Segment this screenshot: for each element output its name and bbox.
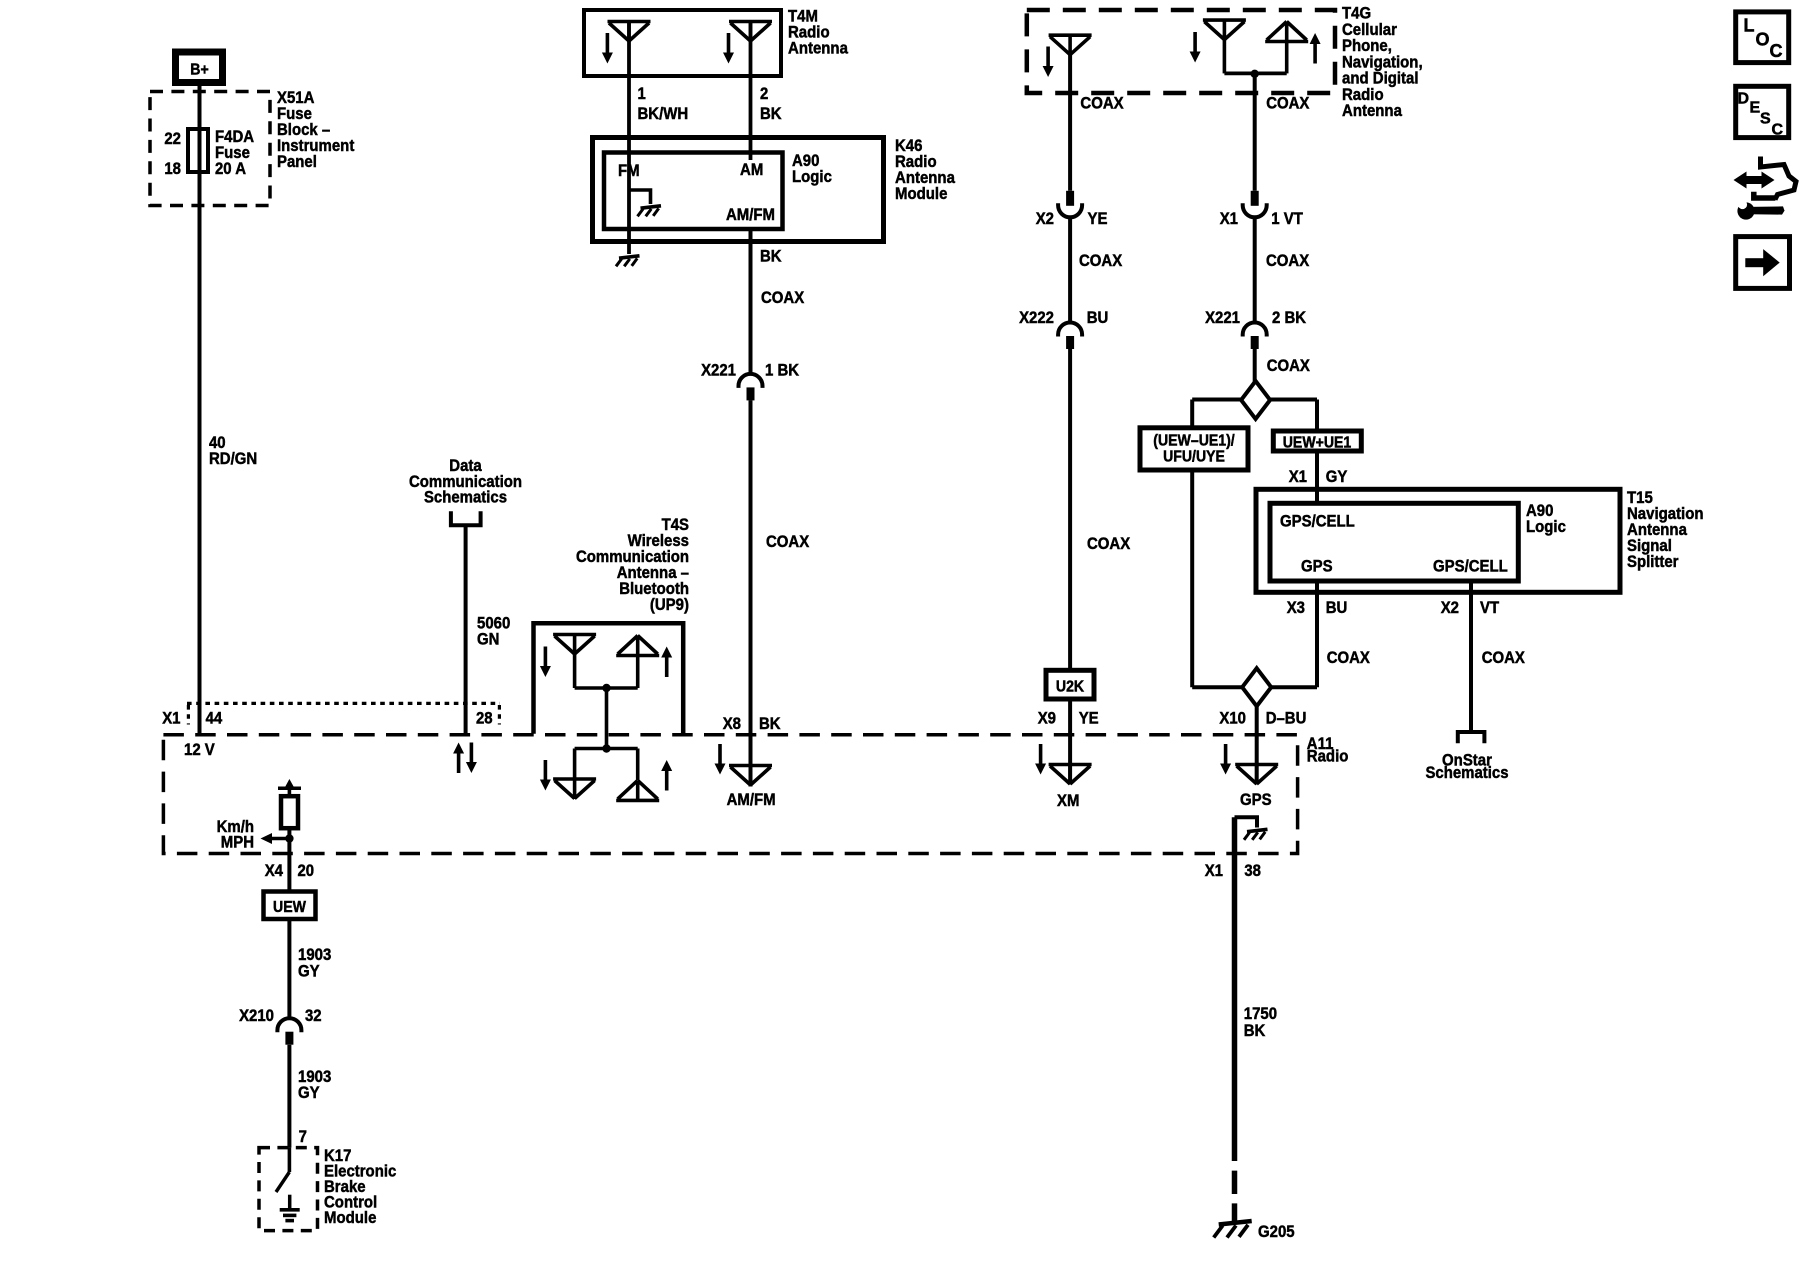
pin 2 label [760, 84, 768, 103]
svg-text:MPH: MPH [221, 833, 254, 852]
radio internal transmit antenna bluetooth [616, 749, 659, 801]
antenna element 2 in T4M [729, 22, 772, 42]
wire U2K to radio X9 [1068, 699, 1072, 784]
wire AM/FM output BK [749, 229, 753, 375]
svg-text:BK: BK [1244, 1021, 1266, 1040]
svg-text:O: O [1756, 30, 1770, 50]
wire label COAX above diamond [1267, 356, 1311, 375]
pin 1 label [638, 84, 646, 103]
svg-text:2 BK: 2 BK [1272, 308, 1307, 327]
svg-text:AM: AM [740, 160, 763, 179]
pin X1 GY label at splitter [1289, 467, 1348, 486]
svg-text:1 VT: 1 VT [1271, 209, 1303, 228]
node label AM/FM [727, 790, 776, 809]
switch blade inside K17 [276, 1148, 289, 1192]
wire label COAX below X2 [1079, 251, 1123, 270]
svg-text:X221: X221 [701, 361, 736, 380]
svg-text:XM: XM [1057, 791, 1079, 810]
wire COAX X1 to X221 [1253, 217, 1257, 323]
component label K46 Radio Antenna Module [895, 136, 955, 203]
svg-text:20 A: 20 A [215, 159, 246, 178]
wire label COAX long left [1087, 534, 1131, 553]
offpage reference OnStar Schematics [1425, 751, 1508, 783]
connector label X1 [162, 709, 180, 728]
svg-text:X2: X2 [1441, 598, 1459, 617]
antenna symbol GPS inside radio [1235, 765, 1278, 785]
svg-text:G205: G205 [1258, 1222, 1295, 1241]
svg-text:COAX: COAX [1079, 251, 1123, 270]
inline connector X2 YE [1036, 191, 1108, 228]
svg-text:Radio: Radio [1307, 747, 1349, 766]
wire label 5060 GN [477, 614, 510, 649]
pin AM label [740, 160, 763, 179]
offpage bracket to OnStar [1458, 732, 1485, 743]
svg-text:VT: VT [1480, 598, 1500, 617]
inline connector X1 1 VT [1220, 191, 1304, 228]
antenna T4M box [584, 10, 781, 76]
pin GPS output label [1301, 557, 1333, 576]
resistor speed signal element [281, 796, 298, 828]
svg-text:X2: X2 [1036, 209, 1054, 228]
navigation antenna element middle [1203, 20, 1246, 73]
chassis ground inside A90 [638, 206, 662, 217]
module label K17 Electronic Brake Control Module [324, 1146, 396, 1227]
module K17 dashed outline [259, 1148, 318, 1231]
wire label COAX below X2 VT [1482, 648, 1526, 667]
pin X10 D-BU label [1219, 709, 1306, 728]
receive arrow at antenna 2 [723, 33, 734, 64]
wire to UFU option branch [1190, 400, 1194, 428]
svg-text:RD/GN: RD/GN [209, 449, 257, 468]
component label T4M Radio Antenna [788, 7, 848, 58]
wire resistor to UEW box [287, 828, 291, 892]
pin 18 label [164, 159, 181, 178]
svg-text:44: 44 [206, 709, 223, 728]
svg-text:(UEW–UE1)/: (UEW–UE1)/ [1153, 433, 1235, 450]
pin X8 BK label [723, 714, 782, 733]
svg-text:YE: YE [1079, 709, 1099, 728]
svg-text:Antenna: Antenna [788, 39, 848, 58]
chassis ground G205 [1214, 1221, 1252, 1238]
bluetooth transmit arrow in T4S [661, 647, 672, 678]
pin 7 label [299, 1127, 307, 1146]
speedometer signal arrowhead up [278, 779, 301, 789]
wire GY into splitter X1 [1315, 451, 1319, 503]
offpage reference Data Communication Schematics [409, 456, 522, 507]
wire label BK/WH [638, 104, 689, 123]
svg-text:X222: X222 [1019, 308, 1054, 327]
svg-text:COAX: COAX [1087, 534, 1131, 553]
arrow to Km/h MPH output [261, 833, 290, 844]
junction diamond lower [1192, 668, 1317, 706]
fuse F4DA 20 A [188, 129, 208, 172]
option box U2K [1046, 670, 1094, 699]
wire 2 BK antenna to module [749, 21, 753, 160]
ground label G205 [1258, 1222, 1295, 1241]
node UEW option box [264, 892, 316, 920]
svg-text:S: S [1760, 111, 1771, 128]
svg-text:C: C [1772, 122, 1784, 139]
component label X51A Fuse Block Instrument Panel [277, 88, 355, 171]
svg-text:X4: X4 [265, 861, 284, 880]
receive arrow at radio AM/FM input [715, 744, 726, 775]
bluetooth receive antenna in T4S [553, 635, 596, 689]
wire label COAX lower AM/FM [766, 532, 810, 551]
svg-text:D–BU: D–BU [1266, 709, 1307, 728]
svg-text:COAX: COAX [1267, 356, 1311, 375]
node label GPS [1240, 790, 1272, 809]
svg-text:COAX: COAX [761, 288, 805, 307]
wire 1 BK/WH antenna to module [627, 21, 631, 254]
svg-text:X221: X221 [1205, 308, 1240, 327]
wire label 1903 GY [298, 945, 331, 981]
svg-text:COAX: COAX [766, 532, 810, 551]
junction bar in T4S [575, 684, 638, 692]
wire 1903 GY lower segment [287, 1045, 291, 1148]
ground stub inside radio at GPS [1235, 817, 1258, 827]
wire T4S feed into radio [605, 688, 609, 749]
svg-text:Antenna: Antenna [1342, 101, 1402, 120]
option box UEW+UE1 [1273, 431, 1361, 452]
pin 28 label [476, 709, 493, 728]
junction diamond upper [1192, 381, 1317, 419]
module K46 box [593, 138, 884, 242]
node junction at speed signal [285, 834, 293, 842]
wire 1903 GY upper segment [287, 919, 291, 1019]
wire label COAX left T4G [1080, 94, 1124, 113]
svg-text:Panel: Panel [277, 152, 317, 171]
wire label 1903 GY second [298, 1067, 331, 1102]
svg-text:C: C [1770, 41, 1783, 61]
serial data arrows at pin 28 [453, 743, 477, 774]
wire label COAX below X3 [1327, 648, 1371, 667]
svg-text:Logic: Logic [1526, 517, 1566, 536]
svg-text:X3: X3 [1287, 598, 1305, 617]
splitter T15 box [1256, 489, 1620, 592]
wire dashed tail to G205 [1232, 1171, 1238, 1221]
pin X2 VT label [1441, 598, 1500, 617]
ground stub inside A90 [629, 190, 651, 204]
svg-text:20: 20 [298, 861, 315, 880]
antenna symbol AM/FM inside radio [729, 766, 772, 786]
signal label Km/h MPH [217, 817, 254, 852]
svg-text:GPS/CELL: GPS/CELL [1433, 557, 1508, 576]
svg-text:COAX: COAX [1482, 648, 1526, 667]
svg-text:COAX: COAX [1327, 648, 1371, 667]
component label T4G Cellular Phone Navigation and Digital Radio Antenna [1342, 4, 1423, 121]
svg-text:Logic: Logic [792, 167, 832, 186]
svg-text:GPS/CELL: GPS/CELL [1280, 512, 1355, 531]
logic label A90 Logic in splitter [1526, 501, 1566, 536]
fuse F4DA value label [215, 127, 254, 178]
svg-text:UEW+UE1: UEW+UE1 [1283, 435, 1352, 452]
svg-text:GY: GY [298, 962, 320, 981]
pin 22 label [164, 129, 181, 148]
wire label COAX on AM/FM line [761, 288, 805, 307]
wire label COAX below X1 [1266, 251, 1310, 270]
receive arrow at antenna 1 [602, 33, 613, 64]
svg-text:X1: X1 [162, 709, 180, 728]
wire D-BU to radio X10 [1255, 706, 1259, 784]
svg-text:38: 38 [1244, 861, 1261, 880]
svg-text:Schematics: Schematics [424, 488, 507, 507]
bluetooth receive arrow in T4S [540, 647, 551, 678]
svg-text:BK: BK [759, 714, 781, 733]
wire COAX X222 to U2K [1068, 349, 1072, 670]
component label A11 Radio [1307, 734, 1349, 766]
svg-text:Module: Module [895, 184, 947, 203]
wire label BK [760, 104, 782, 123]
earth ground inside K17 [280, 1195, 300, 1221]
wire 1750 BK radio ground lead [1232, 817, 1238, 1161]
svg-text:22: 22 [164, 129, 181, 148]
svg-text:E: E [1750, 100, 1761, 117]
icon box DESC [1736, 86, 1789, 138]
svg-text:COAX: COAX [1080, 94, 1124, 113]
svg-text:X1: X1 [1289, 467, 1307, 486]
icon box LOC [1736, 12, 1789, 63]
wire label 1750 BK [1244, 1004, 1277, 1040]
pin 44 label [206, 709, 223, 728]
wire to UEW+UE1 option branch [1315, 400, 1319, 432]
radio internal receive arrow bluetooth [540, 760, 551, 791]
antenna element 1 in T4M [608, 22, 651, 42]
logic block A90 in T15 [1270, 503, 1518, 581]
chassis ground below K46 [616, 256, 640, 266]
pin AM/FM label [726, 205, 775, 224]
wire UFU branch down to lower junction [1190, 470, 1194, 687]
junction bar in T4G [1224, 70, 1286, 78]
pin GPS/CELL input label [1280, 512, 1355, 531]
inline connector X210 cavity 32 [239, 1006, 322, 1045]
chassis ground inside radio [1244, 829, 1268, 840]
svg-text:X9: X9 [1038, 709, 1056, 728]
svg-text:X1: X1 [1220, 209, 1238, 228]
wire COAX X221 to splitter junction [1253, 349, 1257, 382]
wire COAX X221 to radio X8 [749, 400, 753, 786]
wire label BK below K46 [760, 247, 782, 266]
svg-text:28: 28 [476, 709, 493, 728]
svg-text:BK: BK [760, 247, 782, 266]
svg-text:X10: X10 [1219, 709, 1246, 728]
svg-text:B+: B+ [190, 62, 208, 79]
antenna T4G dashed box [1027, 10, 1335, 93]
svg-text:18: 18 [164, 159, 181, 178]
pin X3 BU label [1287, 598, 1348, 617]
receive arrow at radio XM input [1035, 744, 1046, 775]
pin X9 YE label [1038, 709, 1099, 728]
svg-text:UFU/UYE: UFU/UYE [1163, 449, 1225, 466]
svg-text:AM/FM: AM/FM [726, 205, 775, 224]
svg-text:GY: GY [1326, 467, 1348, 486]
svg-text:D: D [1738, 91, 1750, 108]
wire T4G combined feed to X1 [1253, 73, 1257, 190]
svg-text:YE: YE [1088, 209, 1108, 228]
svg-text:BK/WH: BK/WH [638, 104, 689, 123]
svg-text:GPS: GPS [1301, 557, 1333, 576]
fuse block X51A dashed outline [150, 92, 270, 206]
wire label 40 RD/GN [209, 433, 257, 468]
logic block A90 in K46 [604, 153, 783, 230]
radio internal transmit arrow bluetooth [661, 760, 672, 791]
svg-text:32: 32 [305, 1006, 322, 1025]
receive arrow cellular left [1043, 47, 1054, 78]
radio A11 dashed box [163, 735, 1297, 854]
offpage bracket for data link [451, 511, 481, 525]
svg-text:(UP9): (UP9) [650, 595, 689, 614]
junction bar inside radio bluetooth [575, 744, 638, 752]
connector X1 dotted boundary line [187, 703, 500, 724]
pin FM label [618, 161, 640, 180]
wire COAX X2 to X222 [1068, 217, 1072, 323]
logic label A90 Logic [792, 151, 832, 186]
node 12 V label [184, 740, 215, 759]
svg-text:BU: BU [1087, 308, 1109, 327]
icon data link connector with wrench [1734, 157, 1797, 220]
svg-text:GY: GY [298, 1083, 320, 1102]
svg-text:AM/FM: AM/FM [727, 790, 776, 809]
wire GPS/CELL output X2 VT [1469, 581, 1473, 732]
svg-text:1 BK: 1 BK [765, 361, 800, 380]
wire 40 RD/GN from B+ feed to radio pin 44 [198, 84, 202, 733]
svg-text:COAX: COAX [1266, 251, 1310, 270]
svg-text:Module: Module [324, 1208, 376, 1227]
pin X1 38 label [1205, 861, 1261, 880]
svg-text:BK: BK [760, 104, 782, 123]
pin GPS/CELL output label [1433, 557, 1508, 576]
svg-text:X8: X8 [723, 714, 741, 733]
wire cellular antenna to X2 [1068, 54, 1072, 191]
wire label COAX right T4G [1266, 94, 1310, 113]
inline connector X222 BU [1019, 308, 1108, 349]
svg-text:Splitter: Splitter [1627, 552, 1679, 571]
icon box forward arrow [1736, 237, 1790, 289]
svg-text:UEW: UEW [273, 899, 307, 916]
svg-text:X1: X1 [1205, 861, 1223, 880]
transmit arrow digital radio [1310, 33, 1321, 64]
svg-text:COAX: COAX [1266, 94, 1310, 113]
svg-text:1: 1 [638, 84, 646, 103]
bluetooth transmit antenna in T4S [616, 636, 659, 689]
power symbol B+ [176, 52, 223, 83]
component label T15 Navigation Antenna Signal Splitter [1627, 488, 1704, 571]
svg-text:2: 2 [760, 84, 768, 103]
node label XM [1057, 791, 1079, 810]
antenna T4S box open bottom [534, 623, 684, 734]
option box UEW-UE1 UFU UYE [1140, 428, 1248, 470]
svg-text:BU: BU [1326, 598, 1348, 617]
inline connector X221 cavity 1 BK [701, 361, 800, 401]
inline connector X221 cavity 2 BK [1205, 308, 1307, 349]
svg-text:GN: GN [477, 630, 499, 649]
receive arrow at radio GPS input [1220, 744, 1231, 775]
component label T4S Wireless Communication Antenna Bluetooth UP9 [576, 515, 689, 614]
cellular antenna element left [1049, 35, 1092, 55]
receive arrow navigation [1190, 32, 1201, 63]
wire GPS output X3 BU [1315, 581, 1319, 687]
wire from bar to resistor [288, 788, 292, 797]
antenna symbol XM inside radio [1049, 765, 1092, 785]
svg-text:U2K: U2K [1056, 679, 1085, 696]
svg-text:L: L [1744, 16, 1755, 36]
svg-text:12 V: 12 V [184, 740, 215, 759]
connector label X4 pin 20 [265, 861, 314, 880]
wire 5060 GN serial data [464, 525, 468, 733]
svg-text:X210: X210 [239, 1006, 274, 1025]
digital radio transmit antenna right [1265, 22, 1308, 74]
svg-text:7: 7 [299, 1127, 307, 1146]
svg-text:Schematics: Schematics [1425, 763, 1508, 782]
svg-text:FM: FM [618, 161, 640, 180]
radio internal receive antenna bluetooth [553, 749, 596, 800]
svg-text:GPS: GPS [1240, 790, 1272, 809]
